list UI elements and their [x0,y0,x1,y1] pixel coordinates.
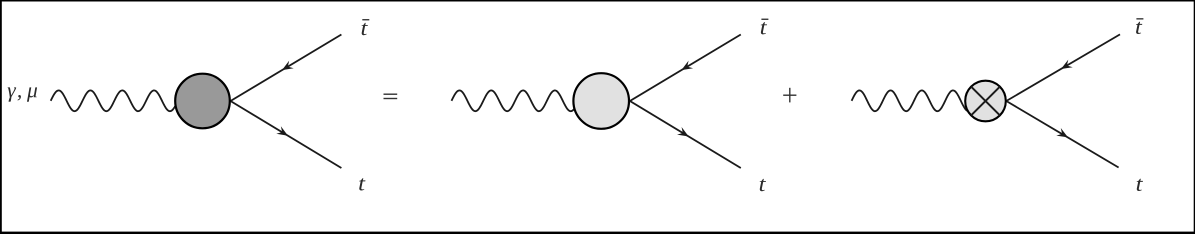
label tbar d3 [1136,18,1143,34]
top fermion wire d2 (lower) [630,101,741,168]
plus sign [783,88,796,103]
label gamma,mu (photon name) [8,87,37,101]
arrow on antitop line d3 (points toward vertex) [1061,60,1073,69]
top fermion wire d1 (lower) [231,101,342,168]
counterterm vertex d3 (crossed circle) [965,81,1006,122]
border frame bottom [0,232,1195,234]
border frame right [1194,0,1195,234]
antitop fermion wire d2 (upper) [630,35,741,102]
border frame left [0,0,2,234]
label t d1 [359,178,365,190]
cross inside counterterm [971,87,1000,116]
arrow on top line d1 (points away from vertex) [276,126,288,135]
label tbar d1 [362,19,370,35]
arrow on top line d3 (points away from vertex) [1056,128,1068,137]
photon wire d1 [51,90,200,111]
border frame top [0,0,1195,2]
antitop fermion wire d1 (upper) [231,35,342,102]
blob vertex d2 (light gray, one-loop vertex) [573,73,629,129]
top fermion wire d3 (lower) [1006,101,1118,168]
arrow on top line d2 (points away from vertex) [677,127,689,136]
label tbar d2 [761,19,769,35]
label t d3 [1137,179,1143,191]
arrow on antitop line d1 (points toward vertex) [282,61,294,70]
label t d2 [760,179,766,191]
equals sign [384,94,398,100]
blob vertex d1 (dark gray, full vertex function) [175,74,230,129]
antitop fermion wire d3 (upper) [1006,34,1120,101]
arrow on antitop line d2 (points toward vertex) [681,61,693,70]
photon wire d2 [452,90,602,111]
photon wire d3 [852,90,985,111]
